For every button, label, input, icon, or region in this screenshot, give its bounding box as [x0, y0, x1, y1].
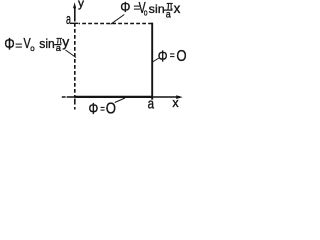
- svg-text:sin: sin: [39, 36, 55, 51]
- svg-text:a: a: [166, 10, 171, 21]
- y-axis dashed segment (left edge of square): [74, 23, 76, 97]
- y-axis arrowhead: [73, 2, 76, 8]
- svg-text:a: a: [66, 11, 71, 28]
- x-axis: [62, 96, 180, 98]
- svg-text:y: y: [78, 0, 84, 10]
- svg-text:O: O: [176, 48, 186, 65]
- leader line from right label to right edge: [153, 58, 160, 62]
- leader line from left formula to left edge: [66, 50, 77, 58]
- left boundary formula: phi = V0 sin(pi/a) y: [4, 34, 69, 54]
- leader line from top formula to top edge: [111, 15, 125, 25]
- tick at y=a: [71, 22, 78, 24]
- svg-text:sin: sin: [149, 2, 165, 16]
- svg-text:o: o: [144, 8, 148, 19]
- leader line from bottom label to bottom edge: [115, 98, 125, 103]
- svg-text:a: a: [148, 96, 155, 113]
- x-axis arrowhead: [176, 95, 183, 99]
- y-axis solid upper segment: [74, 7, 76, 22]
- svg-text:=: =: [170, 50, 175, 62]
- right edge of square (solid), potential 0: [151, 23, 153, 100]
- svg-text:Φ: Φ: [89, 101, 99, 118]
- bottom boundary label: phi = 0: [89, 101, 117, 118]
- svg-text:O: O: [106, 101, 116, 118]
- svg-text:=: =: [15, 38, 22, 52]
- top edge of square (dashed), potential V0 sin(pi x/a): [79, 23, 153, 25]
- svg-text:o: o: [30, 43, 35, 53]
- svg-text:x: x: [174, 1, 181, 16]
- svg-text:x: x: [172, 96, 179, 110]
- right boundary label: phi = 0: [158, 48, 187, 66]
- fraction bar of left formula: [54, 44, 61, 46]
- svg-text:=: =: [100, 103, 105, 115]
- svg-text:Φ: Φ: [158, 48, 168, 65]
- top boundary formula: phi = V0 sin(pi/a) x: [120, 0, 180, 21]
- fraction bar of top formula: [164, 9, 173, 11]
- svg-text:Φ: Φ: [4, 36, 15, 54]
- y-axis dashed extension below origin: [74, 99, 76, 110]
- svg-text:y: y: [62, 34, 69, 50]
- svg-text:Φ: Φ: [120, 0, 130, 16]
